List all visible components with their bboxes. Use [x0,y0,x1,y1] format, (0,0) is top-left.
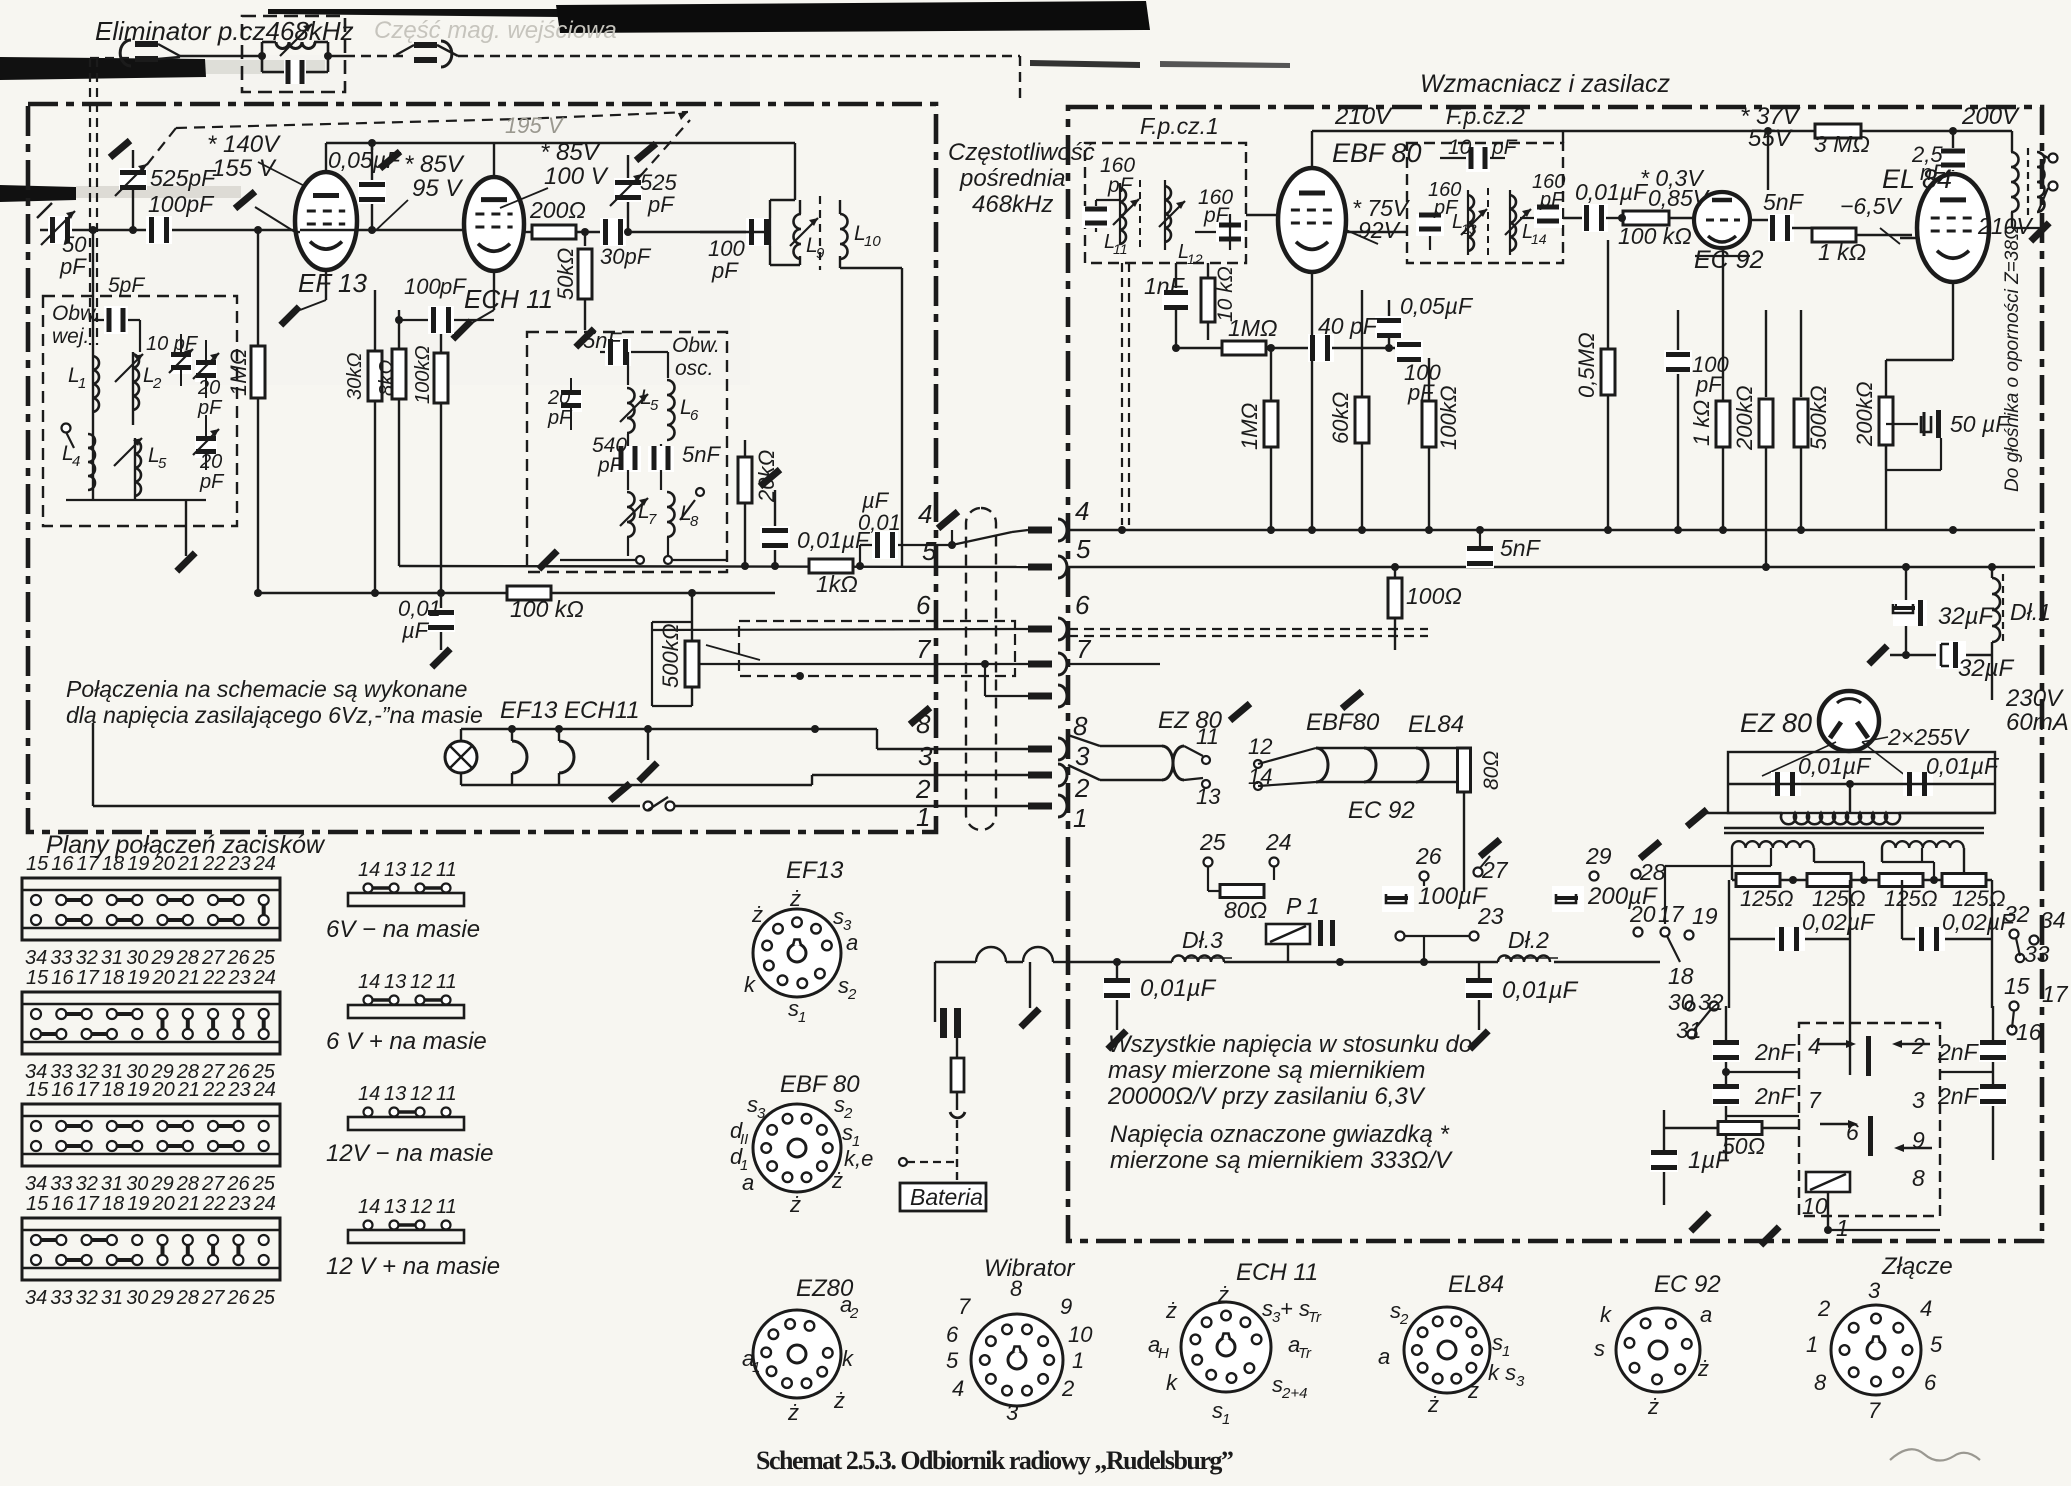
svg-text:EBF 80: EBF 80 [1332,138,1422,168]
svg-text:Wszystkie napięcia w stosunku: Wszystkie napięcia w stosunku do [1108,1031,1472,1058]
svg-text:14: 14 [358,971,380,993]
svg-text:8: 8 [1814,1370,1827,1395]
svg-text:masy mierzone są miernikiem: masy mierzone są miernikiem [1108,1057,1425,1084]
svg-text:14: 14 [358,859,380,881]
svg-text:6: 6 [1846,1119,1859,1145]
svg-text:32: 32 [76,947,98,969]
svg-text:3: 3 [1075,741,1090,771]
svg-text:13: 13 [1461,221,1477,237]
svg-text:29: 29 [151,1173,174,1195]
svg-text:29: 29 [151,947,174,969]
svg-text:17: 17 [2042,981,2069,1007]
svg-text:11: 11 [436,971,457,993]
svg-text:12: 12 [410,1196,432,1218]
svg-text:100pF: 100pF [148,191,215,217]
svg-text:13: 13 [384,1083,406,1105]
svg-text:pF: pF [1407,380,1435,405]
svg-text:19: 19 [127,1079,149,1101]
svg-text:2: 2 [915,774,931,804]
svg-text:26: 26 [1415,843,1442,869]
svg-text:11: 11 [436,859,457,881]
svg-text:18: 18 [102,967,124,989]
svg-text:F.p.cz.2: F.p.cz.2 [1446,103,1525,129]
svg-text:12: 12 [410,971,432,993]
svg-text:P 1: P 1 [1286,893,1320,919]
svg-text:15: 15 [2004,973,2030,999]
svg-text:92V: 92V [1358,217,1402,243]
svg-text:3: 3 [1516,1373,1525,1390]
svg-text:EL84: EL84 [1448,1271,1504,1298]
svg-text:a: a [742,1170,754,1195]
svg-text:pF: pF [711,258,739,283]
svg-text:Napięcia oznaczone gwiazdką *: Napięcia oznaczone gwiazdką * [1110,1121,1450,1148]
svg-text:1: 1 [1502,1343,1510,1360]
svg-text:1: 1 [78,375,86,392]
svg-text:26: 26 [226,1287,250,1309]
svg-text:pF: pF [197,397,223,419]
svg-text:19: 19 [127,967,149,989]
svg-text:ż: ż [831,1168,843,1193]
svg-text:2: 2 [152,375,162,392]
svg-text:10 kΩ: 10 kΩ [1214,266,1237,322]
svg-text:34: 34 [25,947,47,969]
svg-text:+ s: + s [1280,1296,1310,1321]
svg-text:Złącze: Złącze [1881,1253,1953,1280]
svg-text:8: 8 [916,709,931,739]
svg-text:15: 15 [26,967,49,989]
svg-text:25: 25 [252,947,276,969]
svg-text:pF: pF [1203,204,1230,227]
svg-text:5: 5 [1930,1332,1943,1357]
svg-text:1: 1 [1073,803,1087,833]
svg-text:k: k [744,972,756,997]
svg-text:wej.: wej. [52,325,89,348]
svg-text:500kΩ: 500kΩ [658,624,683,688]
svg-text:30: 30 [126,947,148,969]
svg-text:ż: ż [787,1400,799,1425]
svg-text:31: 31 [101,1173,123,1195]
svg-text:10: 10 [1068,1322,1093,1347]
svg-text:Częstotliwość: Częstotliwość [948,139,1095,166]
svg-text:7: 7 [1868,1398,1881,1423]
svg-text:2+4: 2+4 [1281,1385,1307,1402]
svg-text:25: 25 [252,1173,276,1195]
svg-text:1MΩ: 1MΩ [1228,315,1277,341]
svg-text:3 MΩ: 3 MΩ [1814,131,1870,157]
svg-text:21: 21 [177,1193,200,1215]
svg-text:125Ω: 125Ω [1952,886,2005,911]
svg-text:5nF: 5nF [1500,535,1542,561]
svg-text:11: 11 [1196,724,1219,749]
svg-text:2: 2 [1061,1376,1074,1401]
svg-text:1: 1 [1836,1215,1849,1241]
svg-text:6: 6 [916,590,931,620]
svg-text:18: 18 [102,853,124,875]
svg-text:ż: ż [751,902,763,927]
svg-text:pF: pF [439,274,467,299]
svg-text:14: 14 [358,1196,380,1218]
svg-text:16: 16 [51,967,74,989]
svg-text:200µF: 200µF [1587,883,1658,910]
svg-text:3: 3 [1868,1278,1881,1303]
svg-text:21: 21 [177,967,200,989]
svg-text:EL 84: EL 84 [1882,164,1952,194]
svg-text:7: 7 [1076,634,1092,664]
svg-text:0,02µF: 0,02µF [1802,909,1876,935]
svg-text:5: 5 [158,455,167,472]
svg-text:ż: ż [789,1192,801,1217]
svg-text:6 V + na masie: 6 V + na masie [326,1028,487,1055]
svg-text:0,01µF: 0,01µF [1926,753,2000,779]
svg-text:2: 2 [847,986,857,1003]
svg-text:11: 11 [1113,241,1128,257]
svg-text:33: 33 [2024,941,2050,967]
svg-text:15: 15 [26,853,49,875]
svg-text:20: 20 [152,853,175,875]
svg-text:33: 33 [50,947,72,969]
svg-text:pF: pF [1491,136,1518,159]
svg-text:2nF: 2nF [1937,1083,1980,1109]
svg-text:19: 19 [1692,903,1718,929]
svg-text:pF: pF [597,454,624,477]
svg-text:6: 6 [1075,590,1090,620]
svg-text:8: 8 [1010,1276,1023,1301]
svg-text:15: 15 [26,1079,49,1101]
svg-text:0,01: 0,01 [858,510,901,535]
svg-text:osc.: osc. [675,357,714,380]
svg-text:7: 7 [916,634,932,664]
svg-text:100 kΩ: 100 kΩ [510,596,584,622]
svg-text:17: 17 [77,853,100,875]
svg-text:8: 8 [690,513,699,530]
svg-text:100kΩ: 100kΩ [1436,386,1461,450]
svg-text:34: 34 [25,1173,47,1195]
svg-text:EC 92: EC 92 [1654,1271,1721,1298]
svg-text:1: 1 [916,802,930,832]
svg-text:195 V: 195 V [505,113,565,138]
svg-text:12: 12 [410,859,432,881]
svg-text:28: 28 [1639,859,1666,885]
svg-text:µF: µF [401,618,430,643]
svg-text:Eliminator p.cz468kHz: Eliminator p.cz468kHz [95,16,354,46]
svg-text:27: 27 [201,947,225,969]
svg-text:22: 22 [202,1193,225,1215]
svg-text:34: 34 [25,1287,47,1309]
svg-text:24: 24 [1265,829,1292,855]
svg-text:20: 20 [152,1079,175,1101]
svg-text:ż: ż [833,1388,845,1413]
svg-text:4: 4 [1075,496,1089,526]
svg-text:18: 18 [1668,963,1694,989]
svg-text:5: 5 [946,1348,959,1373]
svg-text:1 kΩ: 1 kΩ [1689,400,1714,446]
svg-text:k: k [1600,1302,1612,1327]
svg-text:ż: ż [1647,1394,1659,1419]
svg-text:Dł.3: Dł.3 [1182,927,1223,953]
svg-text:13: 13 [384,859,406,881]
svg-text:24: 24 [253,1193,276,1215]
svg-text:k s: k s [1488,1360,1516,1385]
svg-text:12 V + na masie: 12 V + na masie [326,1253,500,1280]
svg-text:8: 8 [1073,711,1088,741]
svg-text:100 V: 100 V [544,163,609,190]
svg-text:125Ω: 125Ω [1740,886,1793,911]
svg-text:1µF: 1µF [1688,1147,1731,1174]
svg-text:2nF: 2nF [1754,1083,1797,1109]
svg-text:1nF: 1nF [1144,273,1186,299]
svg-text:pF: pF [1695,372,1723,397]
svg-text:468kHz: 468kHz [972,191,1053,218]
svg-text:5nF: 5nF [1763,189,1805,215]
svg-text:26: 26 [226,1173,250,1195]
svg-text:0,05µF: 0,05µF [1400,293,1474,319]
svg-text:5: 5 [922,536,937,566]
svg-text:pośrednia: pośrednia [959,165,1065,192]
svg-text:33: 33 [50,1287,72,1309]
svg-text:16: 16 [51,1079,74,1101]
svg-text:12: 12 [1187,251,1203,267]
svg-text:21: 21 [177,1079,200,1101]
svg-text:32µF: 32µF [1938,603,1995,630]
svg-text:200kΩ: 200kΩ [1852,382,1877,447]
svg-text:Połączenia na schemacie są wyk: Połączenia na schemacie są wykonane [66,676,467,702]
svg-text:11: 11 [436,1196,457,1218]
svg-text:7: 7 [1808,1087,1822,1113]
svg-text:12: 12 [1248,734,1272,759]
svg-text:100: 100 [404,274,441,299]
svg-text:Dł.2: Dł.2 [1508,927,1549,953]
svg-text:EC 92: EC 92 [1348,797,1415,824]
svg-text:60mA: 60mA [2006,709,2069,736]
svg-text:13: 13 [384,1196,406,1218]
svg-text:* 140V: * 140V [207,131,281,158]
svg-text:23: 23 [227,1079,250,1101]
svg-text:100 kΩ: 100 kΩ [1618,223,1692,249]
svg-text:10: 10 [1448,136,1472,159]
svg-text:ECH 11: ECH 11 [464,284,553,314]
svg-text:230V: 230V [2005,685,2064,712]
svg-text:16: 16 [2016,1019,2042,1045]
svg-text:12: 12 [410,1083,432,1105]
svg-text:20: 20 [197,377,220,399]
svg-text:4: 4 [72,453,80,470]
svg-text:200V: 200V [1961,103,2020,130]
svg-text:20000Ω/V przy zasilaniu 6,3V: 20000Ω/V przy zasilaniu 6,3V [1107,1083,1426,1110]
svg-text:0,01µF: 0,01µF [1575,179,1649,205]
svg-text:4: 4 [918,499,932,529]
svg-text:27: 27 [1481,857,1509,883]
svg-text:ECH 11: ECH 11 [1236,1259,1318,1286]
svg-text:pF: pF [1107,174,1134,197]
svg-text:20: 20 [152,1193,175,1215]
svg-text:28: 28 [176,947,199,969]
svg-text:10: 10 [864,233,881,250]
svg-text:EL84: EL84 [1408,711,1464,738]
svg-text:10 pF: 10 pF [146,333,199,355]
svg-text:12V − na masie: 12V − na masie [326,1140,493,1167]
svg-text:155 V: 155 V [212,155,277,182]
svg-text:32: 32 [2004,901,2030,927]
svg-text:5nF: 5nF [682,442,721,467]
svg-text:31: 31 [1676,1017,1702,1043]
svg-text:20: 20 [199,451,222,473]
svg-text:55V: 55V [1748,125,1793,152]
svg-text:Do głośnika o oporności Z=38Ω: Do głośnika o oporności Z=38Ω [2002,226,2023,492]
svg-text:Tr: Tr [1308,1309,1322,1326]
svg-text:80Ω: 80Ω [1224,897,1267,923]
svg-text:1: 1 [1222,1411,1230,1428]
svg-text:14: 14 [1248,764,1272,789]
svg-text:EC 92: EC 92 [1694,246,1764,274]
svg-text:17: 17 [1658,901,1685,927]
svg-text:13: 13 [1196,784,1221,809]
svg-text:0,05µF: 0,05µF [328,147,402,173]
svg-text:k: k [842,1346,854,1371]
svg-text:mierzone są miernikiem 333Ω/V: mierzone są miernikiem 333Ω/V [1110,1147,1453,1174]
svg-text:4: 4 [1808,1033,1821,1059]
svg-text:1: 1 [1806,1332,1818,1357]
svg-text:16: 16 [51,1193,74,1215]
svg-text:k: k [1166,1370,1178,1395]
svg-text:80Ω: 80Ω [1480,751,1503,790]
svg-text:8kΩ: 8kΩ [376,360,398,396]
svg-text:* 85V: * 85V [404,151,465,178]
svg-text:−6,5V: −6,5V [1840,193,1903,219]
svg-text:1: 1 [752,1359,760,1376]
svg-text:1: 1 [798,1009,806,1026]
svg-text:3: 3 [1912,1087,1925,1113]
svg-text:500kΩ: 500kΩ [1806,386,1831,450]
svg-text:6: 6 [946,1322,959,1347]
svg-text:25: 25 [252,1287,276,1309]
svg-text:19: 19 [127,1193,149,1215]
svg-text:60kΩ: 60kΩ [1328,392,1353,444]
svg-text:ż: ż [1165,1298,1177,1323]
svg-text:EZ 80: EZ 80 [1740,708,1812,738]
svg-text:17: 17 [77,967,100,989]
svg-text:26: 26 [226,947,250,969]
svg-text:6: 6 [1924,1370,1937,1395]
svg-text:1 kΩ: 1 kΩ [1818,239,1866,265]
svg-text:a: a [846,930,858,955]
svg-text:200Ω: 200Ω [529,197,586,223]
svg-text:2nF: 2nF [1754,1039,1797,1065]
svg-text:Dł.1: Dł.1 [2010,599,2051,625]
svg-text:0,01µF: 0,01µF [1140,975,1217,1002]
svg-text:33: 33 [50,1173,72,1195]
svg-text:20: 20 [547,387,570,409]
svg-text:19: 19 [127,853,149,875]
svg-text:7: 7 [958,1294,971,1319]
svg-text:* 85V: * 85V [540,139,601,166]
svg-text:Wibrator: Wibrator [984,1255,1075,1282]
svg-text:32: 32 [76,1173,98,1195]
svg-text:100µF: 100µF [1418,883,1488,910]
svg-text:Schemat 2.5.3. Odbiornik radio: Schemat 2.5.3. Odbiornik radiowy „Rudels… [756,1446,1233,1475]
svg-text:6V − na masie: 6V − na masie [326,916,480,943]
svg-text:2: 2 [1074,773,1090,803]
svg-text:25: 25 [1199,829,1226,855]
svg-text:dla napięcia zasilającego 6Vz,: dla napięcia zasilającego 6Vz,-”na masie [66,702,483,728]
svg-text:100kΩ: 100kΩ [412,345,434,404]
svg-text:1: 1 [1072,1348,1084,1373]
svg-text:a: a [1700,1302,1712,1327]
svg-text:5: 5 [650,397,659,414]
svg-text:0,5MΩ: 0,5MΩ [1574,332,1599,398]
svg-text:14: 14 [358,1083,380,1105]
svg-text:22: 22 [202,967,225,989]
svg-text:ż: ż [1427,1392,1439,1417]
svg-text:2×255V: 2×255V [1887,724,1971,750]
svg-text:pF: pF [647,192,675,217]
svg-text:EF13 ECH11: EF13 ECH11 [500,697,640,724]
svg-text:18: 18 [102,1193,124,1215]
svg-text:Tr: Tr [1298,1345,1312,1362]
svg-text:24: 24 [253,967,276,989]
svg-text:F.p.cz.1: F.p.cz.1 [1140,113,1219,139]
svg-text:0,85V: 0,85V [1648,185,1711,211]
svg-text:95 V: 95 V [412,175,463,202]
svg-text:3: 3 [757,1105,766,1122]
svg-text:a: a [1378,1344,1390,1369]
svg-text:pF: pF [199,471,225,493]
svg-text:11: 11 [436,1083,457,1105]
svg-text:0,01µF: 0,01µF [1798,753,1872,779]
svg-text:200kΩ: 200kΩ [1732,386,1757,451]
svg-text:30: 30 [126,1287,148,1309]
svg-text:100Ω: 100Ω [1406,583,1462,609]
svg-text:s: s [1594,1336,1605,1361]
svg-text:pF: pF [547,407,573,429]
svg-text:125Ω: 125Ω [1884,886,1937,911]
svg-text:13: 13 [384,971,406,993]
svg-text:2nF: 2nF [1937,1039,1980,1065]
svg-text:22: 22 [202,853,225,875]
svg-text:50kΩ: 50kΩ [553,248,578,300]
svg-text:30: 30 [1668,989,1694,1015]
svg-text:2: 2 [849,1305,859,1322]
svg-text:9: 9 [816,245,825,262]
svg-text:24: 24 [253,853,276,875]
svg-text:32: 32 [1698,989,1724,1015]
svg-text:24: 24 [253,1079,276,1101]
svg-text:9: 9 [1060,1294,1072,1319]
svg-text:15: 15 [26,1193,49,1215]
svg-text:H: H [1158,1345,1169,1362]
svg-text:210V: 210V [1334,103,1393,130]
svg-text:125Ω: 125Ω [1812,886,1865,911]
svg-text:23: 23 [227,967,250,989]
svg-text:30pF: 30pF [600,244,652,269]
svg-text:6: 6 [690,407,699,424]
svg-text:10: 10 [1802,1193,1828,1219]
svg-text:ż: ż [1217,1282,1229,1307]
svg-text:ż: ż [1467,1378,1479,1403]
svg-text:EBF 80: EBF 80 [780,1071,860,1098]
svg-text:17: 17 [77,1193,100,1215]
svg-text:k,e: k,e [844,1146,873,1171]
svg-text:28: 28 [176,1287,199,1309]
svg-text:4: 4 [952,1376,964,1401]
svg-text:28: 28 [176,1173,199,1195]
svg-text:EBF80: EBF80 [1306,709,1380,736]
svg-text:3: 3 [1006,1400,1019,1425]
svg-text:27: 27 [201,1173,225,1195]
svg-text:pF: pF [1539,189,1565,211]
svg-text:2: 2 [1911,1033,1925,1059]
svg-text:30kΩ: 30kΩ [344,353,366,400]
svg-text:ż: ż [789,886,801,911]
